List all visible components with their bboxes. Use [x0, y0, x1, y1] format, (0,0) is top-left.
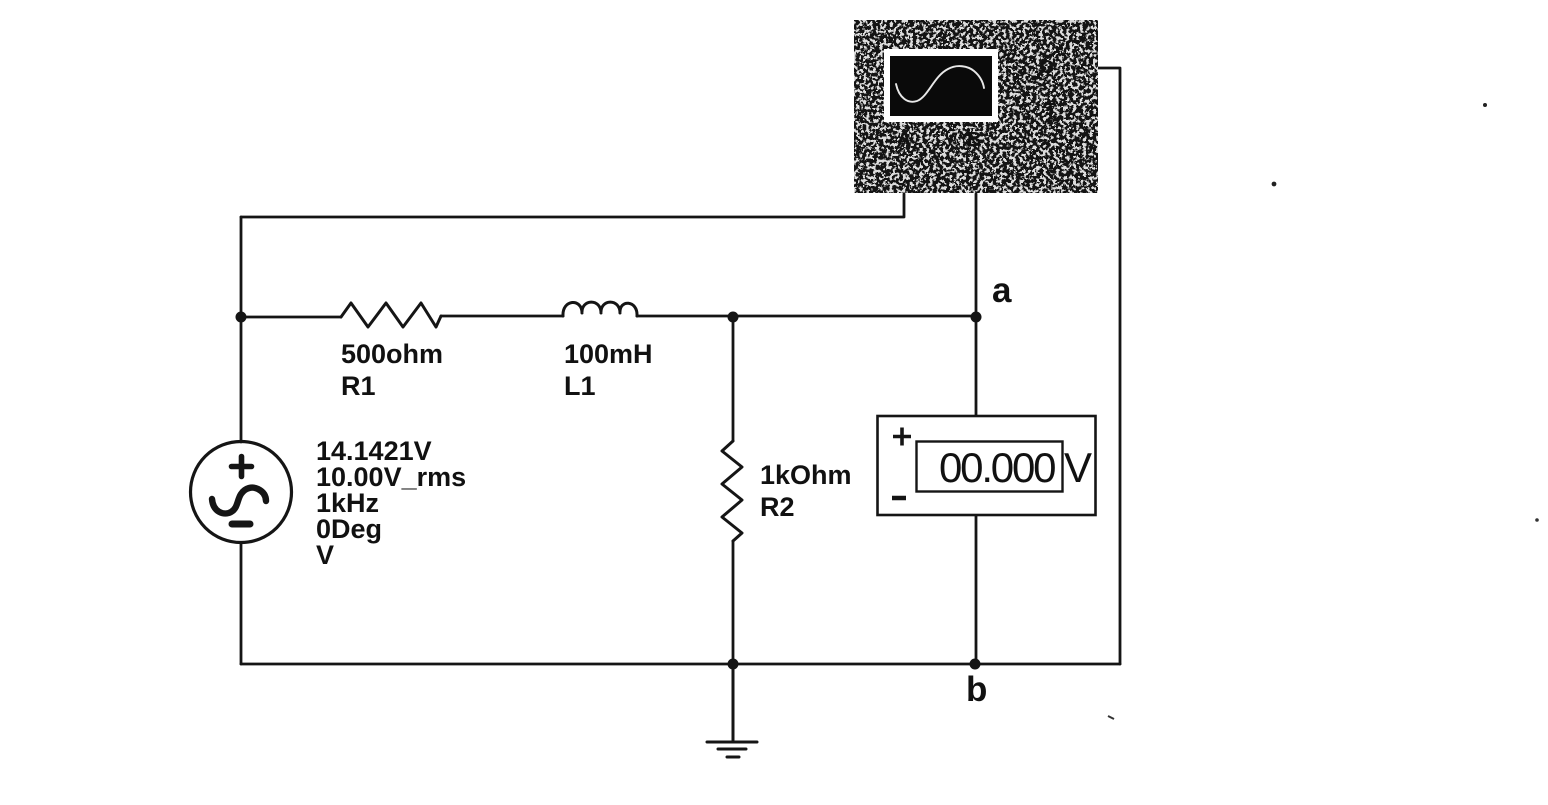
AC source V	[191, 442, 292, 543]
wire: bottom rail	[241, 663, 1120, 666]
node junction left	[236, 312, 247, 323]
stray speck 3	[1535, 518, 1539, 522]
wire: top horizontal from left branch to oscilloscope A input	[241, 194, 904, 217]
wire: voltmeter - terminal down to node b	[975, 515, 978, 664]
wire: node a down to voltmeter + terminal	[975, 317, 978, 416]
svg-text:100mH: 100mH	[564, 339, 653, 369]
node junction R2 top	[728, 312, 739, 323]
wire: node R2-top down to R2	[732, 317, 735, 441]
svg-text:T: T	[1045, 100, 1056, 120]
wire: source bottom to bottom rail	[240, 543, 243, 664]
svg-text:B: B	[967, 129, 981, 151]
wire: R1 to L1	[441, 315, 563, 318]
oscilloscope	[854, 20, 1098, 193]
stray speck 2	[1272, 182, 1277, 187]
svg-text:a: a	[992, 271, 1012, 310]
resistor R2	[722, 441, 742, 541]
resistor R1	[341, 303, 441, 327]
wire: oscilloscope B terminal down to node a	[975, 194, 978, 317]
svg-text:b: b	[966, 670, 987, 709]
svg-text:R1: R1	[341, 371, 376, 401]
svg-text:G: G	[1040, 57, 1054, 77]
node junction R2 bottom	[728, 659, 739, 670]
svg-text:00.000: 00.000	[939, 444, 1055, 491]
svg-text:A: A	[897, 129, 911, 151]
svg-text:R2: R2	[760, 492, 795, 522]
svg-text:V: V	[1064, 444, 1092, 491]
wire: R2 to bottom rail	[732, 541, 735, 664]
svg-text:V: V	[316, 540, 334, 570]
wire: middle rail from left branch to R1	[241, 316, 341, 319]
svg-text:500ohm: 500ohm	[341, 339, 443, 369]
node b junction	[970, 659, 981, 670]
ground	[707, 664, 757, 757]
voltmeter	[878, 416, 1096, 515]
svg-text:L1: L1	[564, 371, 596, 401]
wire: L1 to node a	[637, 315, 976, 318]
wire: oscilloscope right terminal to right vertical rail	[1098, 68, 1120, 664]
node a junction	[971, 312, 982, 323]
inductor L1	[563, 302, 637, 316]
wire: left vertical (top wire down to source)	[240, 217, 243, 442]
stray speck 4	[1108, 716, 1114, 719]
stray speck 1	[1483, 103, 1487, 107]
svg-text:1kOhm: 1kOhm	[760, 460, 852, 490]
